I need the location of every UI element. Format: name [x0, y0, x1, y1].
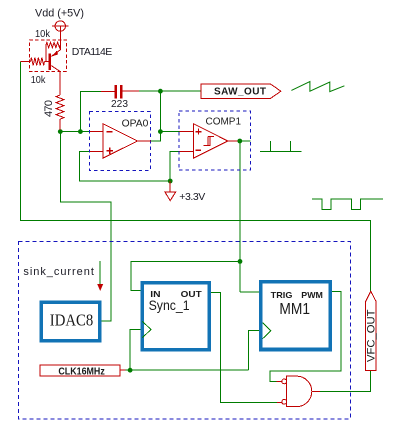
outer dashed box (digital section): [19, 241, 351, 418]
label: SAW_OUT off-page connector: [201, 84, 281, 98]
svg-text:COMP1: COMP1: [206, 116, 242, 127]
annotation: pulse waveform glyph: [260, 141, 302, 152]
wire: gate output to VFC_OUT label bottom: [320, 371, 371, 392]
node: junction dot COMP1 output: [237, 139, 242, 144]
op-amp U1 OPA0 dashed box: [89, 111, 150, 170]
wire: OPA0 plus leg down to 3.3V rail: [80, 151, 171, 181]
wire: clock net horizontal: [125, 369, 248, 371]
op-amp U1 OPA0: [90, 124, 151, 158]
wire: node row to OPA0 minus input: [60, 131, 90, 133]
svg-text:+3.3V: +3.3V: [179, 191, 205, 203]
svg-text:10k: 10k: [31, 74, 46, 86]
wire: COMP1 minus leg down to 3.3V rail: [170, 152, 179, 182]
power symbol: Vdd terminal: [52, 21, 69, 50]
wire: branch to Sync_1 IN: [131, 261, 240, 290]
wire: MM1 PWM feedback to gate upper input: [270, 292, 341, 382]
svg-text:IDAC8: IDAC8: [50, 311, 93, 330]
svg-text:Sync_1: Sync_1: [149, 298, 190, 313]
wire: clock up to MM1 chevron: [249, 331, 260, 371]
node: junction dot saw node top: [158, 89, 163, 94]
clock chevron Sync_1: [143, 321, 151, 337]
svg-text:SAW_OUT: SAW_OUT: [214, 87, 266, 98]
label: CLK16MHz off-page connector: [40, 365, 125, 377]
block U4 Sync_1: [142, 283, 209, 350]
capacitor C1 223: [101, 85, 139, 98]
node: junction dot 3.3V rail: [168, 179, 173, 184]
label: VFC_OUT off-page connector (vertical): [365, 291, 377, 370]
svg-text:223: 223: [111, 98, 128, 110]
wire: capacitor right to saw node: [139, 90, 160, 92]
gate G1 NOR (AND with inverted inputs): [277, 376, 320, 407]
svg-text:sink_current: sink_current: [23, 266, 94, 278]
wire: to MM1 TRIG: [240, 291, 259, 293]
power symbol: +3.3V terminal: [165, 181, 176, 201]
annotation: sawtooth waveform glyph: [291, 82, 344, 92]
wire: clock up to Sync_1 chevron: [130, 330, 141, 371]
wire: OPA0 output elbow up to node: [151, 132, 160, 141]
svg-text:TRIG: TRIG: [271, 290, 293, 300]
svg-text:CLK16MHz: CLK16MHz: [58, 366, 104, 377]
comparator U2 COMP1 dashed box: [179, 111, 250, 170]
comparator U2 COMP1: [180, 124, 238, 158]
node: junction dot COMP1 plus row: [158, 129, 163, 134]
node: junction dot cap-left branch: [78, 129, 83, 134]
svg-text:MM1: MM1: [279, 301, 310, 318]
annotation: square waveform glyph: [312, 199, 383, 210]
block U3 IDAC8: [41, 302, 100, 341]
wire: saw node to SAW_OUT label: [160, 90, 201, 92]
wire: Sync_1 OUT down to gate lower input: [211, 292, 270, 402]
wire: gate lower input green stub: [270, 401, 277, 403]
wire: capacitor left branch: [80, 91, 101, 131]
wire: IDAC8 output to inverting node: [60, 132, 111, 321]
transistor Q1 DTA114E dashed box: [30, 40, 67, 72]
block U5 MM1: [261, 282, 331, 350]
wire: COMP1 output down to trig row: [239, 141, 241, 292]
wire: WFC net from base resistor down-left, across bottom, to VFC_OUT label top: [21, 62, 371, 292]
wire: saw node down to COMP1 plus input row: [160, 91, 179, 131]
wire: COMP1 output stub right: [240, 140, 251, 142]
svg-text:10k: 10k: [35, 28, 51, 40]
svg-text:PWM: PWM: [301, 290, 323, 300]
svg-text:OPA0: OPA0: [122, 118, 149, 129]
resistor R2 10k (base-emitter resistor, horizontal at top): [46, 42, 60, 61]
transistor Q1 PNP body: [49, 32, 61, 96]
node: junction dot trig branch: [238, 259, 243, 264]
svg-text:Vdd (+5V): Vdd (+5V): [35, 7, 84, 19]
resistor R1 10k (horizontal input resistor): [21, 58, 49, 66]
clock chevron MM1: [263, 323, 271, 339]
node: junction dot at 470 bottom: [58, 129, 63, 134]
annotation: sink_current arrow: [99, 261, 101, 285]
svg-text:470: 470: [43, 100, 55, 117]
svg-text:VFC_OUT: VFC_OUT: [365, 309, 377, 362]
svg-text:DTA114E: DTA114E: [72, 46, 113, 58]
resistor R3 470 (vertical): [56, 95, 64, 130]
node: junction dot clock branch: [128, 368, 133, 373]
